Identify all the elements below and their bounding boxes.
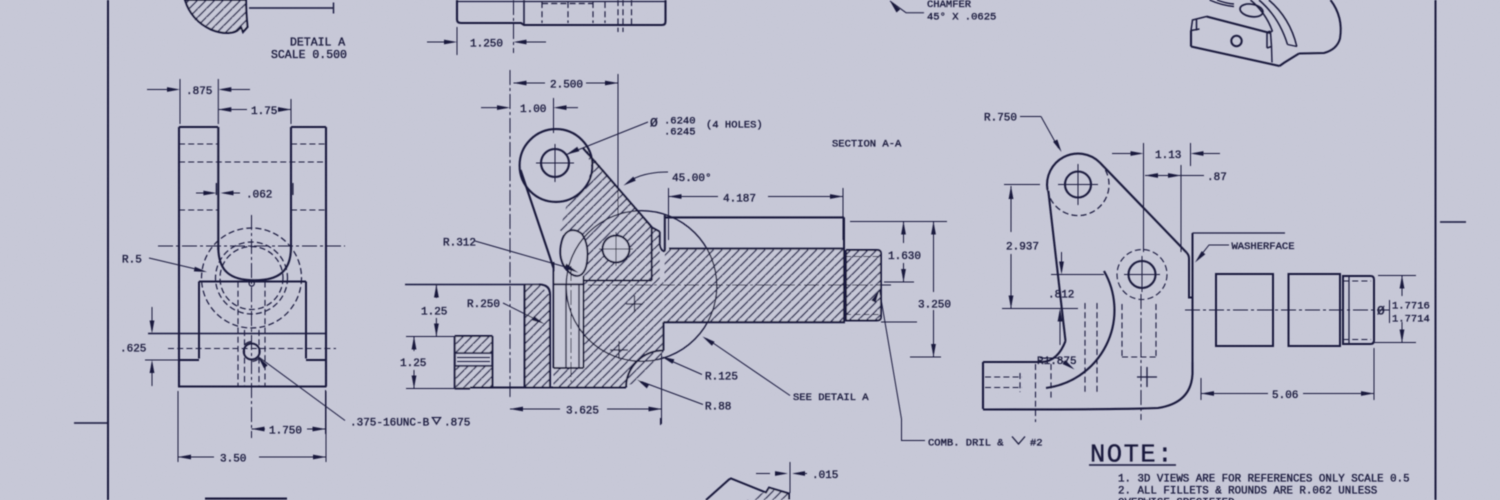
section lug outer circle bbox=[520, 129, 593, 202]
dim 1.25 lower bbox=[400, 337, 426, 389]
section hatch body right of rib bbox=[584, 281, 664, 387]
partial view hidden lines bbox=[542, 0, 632, 32]
section bolt centerline bbox=[509, 70, 511, 398]
right view hole 2 boss dashed circle bbox=[1117, 250, 1167, 300]
label 45.00 deg bbox=[624, 172, 712, 186]
right view boss top silhouette bbox=[1193, 232, 1286, 234]
right view lug left tangent bbox=[1048, 191, 1065, 341]
dim 1.250 bbox=[427, 27, 546, 55]
partial bottom view outline bbox=[457, 0, 666, 25]
section rib white slot bbox=[555, 272, 583, 368]
left view bore centerline horizontal bbox=[158, 245, 345, 247]
isometric 3D view of bracket bbox=[1191, 0, 1341, 66]
left view slot inner edges bbox=[218, 127, 291, 280]
leader R.88 bbox=[637, 380, 731, 414]
right view foot left edge bbox=[982, 362, 984, 409]
section background boss circle bbox=[566, 211, 717, 362]
section foot bottom extension bbox=[406, 388, 455, 390]
dim 1.75 extension line bbox=[290, 99, 292, 124]
section bottom edge bbox=[455, 388, 626, 389]
sheet left border line bbox=[107, 0, 109, 500]
leader SEE DETAIL A bbox=[703, 337, 870, 405]
right view lug diagonal tangent bbox=[1100, 163, 1187, 253]
leader .375-16UNC tapped hole bbox=[258, 357, 470, 430]
dim .875 bbox=[147, 86, 250, 98]
right view boss concave arc R1.875 bbox=[1046, 271, 1114, 388]
leader chamfer note bbox=[890, 0, 996, 24]
leader hole diameter .6240 bbox=[567, 116, 763, 155]
dim 5.06 bbox=[1201, 348, 1374, 402]
section end cap outline bbox=[845, 250, 881, 321]
dim 1.13 bbox=[1112, 143, 1220, 252]
dim .015 bbox=[756, 462, 838, 493]
right view shaft segment 2 bbox=[1289, 274, 1341, 346]
section lug hole bbox=[536, 144, 574, 182]
leader R1.875 bbox=[1037, 356, 1077, 370]
section teardrop fillet R.312 white bbox=[560, 230, 587, 276]
right view right edge bbox=[983, 233, 1193, 410]
left view hidden lines across posts bbox=[168, 144, 336, 349]
left margin tick bbox=[74, 422, 108, 424]
right view shaft segment 1 bbox=[1216, 274, 1273, 346]
right view lug hole centerline ext bbox=[1004, 184, 1040, 186]
dim .87 bbox=[1145, 165, 1227, 252]
section left foot outline bbox=[455, 336, 493, 389]
sheet right border line bbox=[1435, 0, 1437, 500]
dimension line stub above detail A bbox=[249, 3, 334, 14]
section body left edge bbox=[524, 285, 526, 389]
section hatch left foot lower bbox=[455, 366, 493, 389]
right view hidden counterbore bbox=[1122, 294, 1156, 420]
dim 1.75 bbox=[218, 106, 291, 118]
leader WASHERFACE bbox=[1195, 241, 1295, 263]
label DETAIL A bbox=[290, 37, 345, 50]
note line 3 bbox=[1118, 498, 1235, 500]
right view foot hidden lines bbox=[985, 364, 1051, 422]
leader R.750 bbox=[984, 113, 1062, 153]
dim 2.937 bbox=[1002, 186, 1078, 309]
left view step verticals bbox=[199, 282, 306, 359]
bottom detail outline bbox=[706, 479, 789, 500]
dim 3.625 bbox=[510, 354, 662, 424]
section hatch left foot upper bbox=[455, 336, 493, 353]
left view slot ledge step bbox=[216, 183, 293, 195]
section hatch below rib bbox=[554, 368, 584, 387]
section hole 2 white fill bbox=[603, 236, 630, 263]
section hatch slab left of rib bbox=[525, 285, 550, 389]
section lug left tangent line bbox=[521, 170, 554, 268]
section shaft bottom line bbox=[663, 321, 917, 323]
section hatch end cap bbox=[846, 250, 881, 321]
right view foot top and fillet bbox=[983, 341, 1066, 362]
left view hidden hole lines bbox=[238, 282, 265, 387]
section hole 2 outline bbox=[599, 232, 633, 266]
detail A partial hatched section blob bbox=[185, 0, 248, 34]
section lug diagonal 45 deg edge bbox=[583, 148, 652, 228]
leader R.125 bbox=[662, 357, 739, 384]
NOTE heading bbox=[1089, 441, 1176, 470]
section boss center mark bbox=[626, 296, 643, 313]
dim .062 bbox=[196, 190, 272, 202]
section hatch upper triangle and wall bbox=[560, 148, 660, 281]
dim 4.187 bbox=[669, 188, 844, 240]
section R.250 fillet corner bbox=[539, 285, 550, 389]
left view tapped hole bbox=[244, 342, 260, 362]
left view base top line bbox=[148, 333, 326, 335]
section shaft top silhouette bbox=[664, 216, 844, 218]
section rib centerline bbox=[570, 266, 572, 382]
label SECTION A-A bbox=[832, 139, 902, 151]
section wall below diagonal bbox=[652, 214, 665, 281]
section slab top edge left bbox=[405, 284, 539, 286]
right view hidden bolt hole bbox=[1085, 303, 1097, 393]
note line 2 bbox=[1118, 486, 1377, 498]
dim .625 bbox=[120, 307, 178, 386]
leader R.312 bbox=[443, 238, 579, 273]
dim 3.50 bbox=[178, 391, 326, 466]
label SCALE 0.500 bbox=[271, 49, 347, 62]
dim .812 bbox=[1048, 252, 1104, 345]
bottom title block edge bbox=[205, 498, 287, 500]
left view seat lines y360 bbox=[178, 359, 326, 361]
right view lug outer arc solid bbox=[1047, 154, 1100, 190]
right view shaft threaded end bbox=[1343, 276, 1374, 344]
section slab top edge right of rib bbox=[554, 281, 652, 285]
left view vertical centerline bbox=[251, 215, 253, 438]
right view lug hole bbox=[1058, 164, 1098, 205]
section shaft centerline bbox=[588, 284, 892, 286]
section rib slot edges bbox=[554, 262, 584, 368]
section shaft right face bbox=[843, 217, 845, 322]
bottom detail extension tick bbox=[660, 418, 662, 425]
dim 1.750 bbox=[252, 390, 326, 438]
right view lug outer arc hidden bbox=[1048, 163, 1110, 216]
section foot top extension bbox=[406, 336, 455, 338]
dim 1.25 upper bbox=[421, 285, 447, 337]
right view hole 2 bbox=[1124, 256, 1160, 292]
partial view centerline bbox=[513, 0, 515, 53]
left view bore dashed circles bbox=[202, 228, 302, 328]
right margin tick bbox=[1440, 221, 1466, 223]
leader R.5 bbox=[122, 255, 207, 273]
dim 2.500 bbox=[514, 74, 619, 215]
right view shaft centerline bbox=[1185, 309, 1390, 311]
dim 3.250 bbox=[910, 222, 951, 358]
right view center mark plus bbox=[1137, 367, 1157, 387]
left view step shoulder line bbox=[199, 281, 306, 283]
section R.88 corner fillet bbox=[626, 322, 663, 387]
leader COMB DRIL bbox=[871, 290, 1042, 450]
section hatch shaft bbox=[663, 249, 844, 323]
left view bore center mark bbox=[249, 281, 254, 286]
left view outer profile bbox=[178, 127, 327, 387]
partial view top edge line bbox=[456, 1, 666, 3]
dim .875 extension lines bbox=[180, 79, 218, 124]
leader R.250 bbox=[467, 299, 545, 324]
note line 1 bbox=[1118, 474, 1410, 486]
dim 1.630 bbox=[850, 222, 947, 283]
section fillet center mark bbox=[610, 341, 628, 359]
dim 1.00 bbox=[481, 98, 578, 133]
section shaft section top line bbox=[669, 248, 844, 250]
partial view inner step line bbox=[523, 0, 525, 25]
dim shaft diameter bbox=[1372, 276, 1430, 343]
